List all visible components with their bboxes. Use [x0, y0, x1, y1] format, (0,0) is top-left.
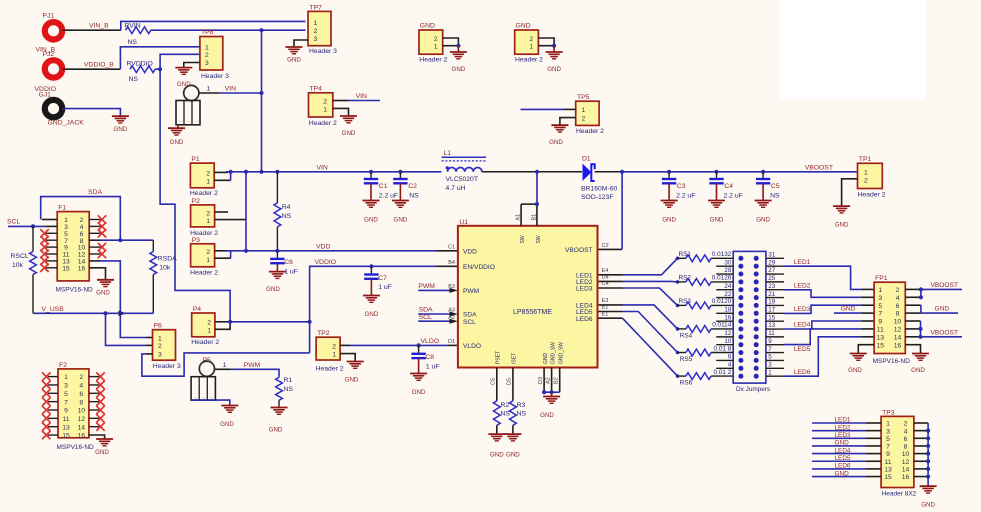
svg-text:GND: GND — [848, 367, 862, 374]
svg-text:16: 16 — [902, 474, 910, 481]
svg-text:28: 28 — [724, 267, 731, 274]
svg-text:1: 1 — [64, 374, 68, 381]
svg-text:GND: GND — [921, 502, 935, 509]
F1 unconnected pin X marks right — [89, 215, 106, 258]
wire SCL to F1 pin3 — [46, 225, 57, 227]
svg-text:PJ2: PJ2 — [43, 51, 55, 58]
connector FP1 — [873, 275, 911, 365]
svg-text:8: 8 — [79, 399, 83, 406]
test connector P5 — [191, 357, 215, 400]
svg-text:1 uF: 1 uF — [284, 268, 298, 275]
wire junction up to TP8 pin2 — [160, 54, 200, 69]
svg-text:0.0126: 0.0126 — [712, 275, 732, 282]
resistor R1 — [276, 377, 294, 407]
junction VIN at probe tap — [259, 91, 263, 95]
header TP3 — [881, 409, 917, 497]
ground for C4 — [708, 201, 725, 224]
junction V_USB at x120 — [118, 311, 122, 315]
svg-text:D5: D5 — [506, 378, 512, 385]
wire LED1 to FP1 pin1 — [784, 266, 874, 289]
wire P3 pin2 to VDD rail — [215, 250, 228, 252]
ground for C8 — [410, 374, 427, 397]
wire U1 GND pins — [544, 368, 560, 393]
svg-text:8: 8 — [896, 311, 900, 318]
resistor RS1 — [678, 251, 734, 262]
junction VIN on RVIN wire — [259, 28, 263, 32]
svg-text:15: 15 — [877, 342, 885, 349]
wire LED6 to TP3 pin 13 — [812, 468, 881, 470]
svg-text:11: 11 — [884, 459, 891, 466]
wire TP5 pin2 to ground — [560, 118, 576, 125]
svg-text:V_USB: V_USB — [42, 306, 65, 313]
svg-text:GND: GND — [662, 217, 676, 224]
svg-text:GND: GND — [841, 306, 856, 313]
svg-text:GND: GND — [412, 389, 426, 396]
svg-text:GND: GND — [177, 81, 191, 88]
ground for TP1 — [833, 206, 850, 228]
wire LED4 to FP1 pin9 — [784, 321, 874, 329]
svg-text:Header 2: Header 2 — [858, 192, 886, 199]
svg-text:R1: R1 — [284, 377, 293, 384]
svg-text:2.2 uF: 2.2 uF — [379, 192, 398, 199]
svg-text:5: 5 — [64, 391, 68, 398]
svg-text:LED6: LED6 — [835, 463, 851, 470]
svg-text:GND: GND — [342, 130, 356, 137]
wire VDDIO_B down to P4 node — [160, 69, 230, 322]
svg-text:LED3: LED3 — [835, 432, 851, 439]
wire VIN probe to VIN vertical — [199, 92, 219, 94]
junction GND-1 — [456, 44, 460, 48]
svg-text:2: 2 — [205, 52, 209, 59]
ground for GND-2 — [546, 46, 563, 73]
svg-text:Header 2: Header 2 — [190, 230, 218, 237]
svg-text:SCL: SCL — [463, 319, 476, 326]
jumper left pin numbers — [724, 259, 731, 368]
svg-text:0.01 8: 0.01 8 — [714, 345, 732, 352]
junction SCL at RSCL — [31, 224, 35, 228]
svg-text:14: 14 — [902, 467, 910, 474]
svg-text:14: 14 — [894, 334, 902, 341]
svg-text:3: 3 — [886, 428, 890, 435]
junction FP1 VBOOST top — [919, 287, 923, 299]
svg-text:SW: SW — [536, 235, 542, 243]
resistor RS3 — [678, 298, 734, 309]
svg-text:R3: R3 — [517, 402, 526, 409]
svg-text:NS: NS — [282, 213, 292, 220]
capacitor C1 — [364, 172, 398, 200]
svg-text:9: 9 — [768, 338, 772, 345]
svg-text:Header 2: Header 2 — [576, 128, 604, 135]
svg-text:1: 1 — [206, 218, 210, 225]
svg-text:LED4: LED4 — [835, 447, 851, 454]
wire SDA stub into U1 — [418, 312, 458, 317]
svg-text:12: 12 — [78, 416, 86, 423]
svg-text:LED3: LED3 — [576, 286, 593, 293]
svg-text:C2: C2 — [408, 183, 417, 190]
svg-text:VBOOST: VBOOST — [805, 164, 833, 171]
svg-text:GJ1: GJ1 — [39, 92, 52, 99]
capacitor C8 — [411, 345, 439, 373]
svg-text:13: 13 — [62, 424, 70, 431]
svg-text:1: 1 — [864, 170, 868, 177]
svg-text:10: 10 — [894, 319, 902, 326]
svg-text:RS5: RS5 — [680, 356, 693, 363]
svg-text:RVDDIO: RVDDIO — [127, 61, 153, 68]
junction U1 GND pins — [542, 390, 554, 394]
ground for F2 — [95, 439, 113, 456]
svg-text:GND: GND — [365, 311, 379, 318]
header TP5 — [576, 94, 604, 135]
junction V_USB at P6 feed — [103, 311, 107, 315]
svg-text:15: 15 — [768, 314, 775, 321]
resistor RVIN — [125, 22, 151, 46]
svg-text:LP8556TME: LP8556TME — [513, 309, 552, 316]
svg-text:Dx Jumpers: Dx Jumpers — [736, 386, 770, 393]
wire LED4 from U1 to RS4 — [599, 305, 678, 329]
ground for FP1 pin15 — [848, 354, 867, 375]
svg-text:LED5: LED5 — [835, 455, 851, 462]
svg-text:LED1: LED1 — [794, 259, 811, 266]
svg-text:6: 6 — [896, 303, 900, 310]
svg-text:Header 8X2: Header 8X2 — [882, 491, 917, 498]
svg-text:1: 1 — [582, 107, 586, 114]
svg-text:GND: GND — [756, 217, 770, 224]
svg-text:Header 2: Header 2 — [191, 339, 219, 346]
svg-text:2: 2 — [314, 28, 318, 35]
svg-text:3: 3 — [158, 352, 162, 359]
svg-text:PWM: PWM — [418, 283, 435, 290]
ground for GND-1 — [450, 46, 467, 73]
svg-text:P4: P4 — [193, 306, 202, 313]
svg-text:LED6: LED6 — [794, 369, 811, 376]
wire GND to TP3 pin 15 — [812, 476, 881, 478]
wire P4 pin1 jog — [215, 322, 230, 330]
svg-text:1: 1 — [529, 44, 533, 51]
svg-text:GND: GND — [220, 421, 234, 428]
wire LED6 to FP1 pin13 — [784, 337, 874, 376]
junction VDDIO_B — [158, 67, 162, 71]
svg-text:Header 2: Header 2 — [515, 57, 543, 64]
svg-text:24: 24 — [724, 283, 731, 290]
svg-text:10k: 10k — [159, 265, 171, 272]
wire TP4 pin1 to ground — [333, 108, 349, 115]
wire F1 pin14 down to V_USB and P6 pin1 — [89, 260, 100, 262]
wire FP1 pins 2+4 VBOOST — [905, 289, 962, 297]
svg-text:GND: GND — [96, 289, 110, 296]
svg-text:0.0132: 0.0132 — [712, 251, 732, 258]
ground for TP8 — [175, 68, 192, 88]
white overlay panel top-right — [780, 0, 925, 99]
resistor RSDA — [150, 240, 177, 313]
svg-text:10: 10 — [902, 451, 910, 458]
svg-text:SCL: SCL — [419, 314, 432, 321]
svg-text:1 uF: 1 uF — [378, 284, 392, 291]
ground for TP4 — [340, 116, 357, 137]
header TP2 — [316, 330, 344, 372]
svg-text:SDA: SDA — [463, 312, 477, 319]
svg-text:1: 1 — [206, 257, 210, 264]
svg-text:SCL: SCL — [7, 219, 20, 226]
header TP4 — [309, 86, 337, 127]
svg-text:TP3: TP3 — [882, 409, 895, 416]
svg-text:C6: C6 — [284, 259, 293, 266]
svg-text:NS: NS — [128, 39, 138, 46]
svg-text:16: 16 — [894, 342, 902, 349]
svg-text:GND: GND — [549, 139, 563, 146]
header P6 — [153, 323, 181, 370]
junction VLDO at C8 — [417, 343, 421, 347]
svg-text:4: 4 — [728, 361, 732, 368]
svg-text:RVIN: RVIN — [125, 22, 141, 29]
resistor RSCL — [11, 226, 37, 313]
svg-text:1 uF: 1 uF — [426, 364, 440, 371]
svg-text:GND_SW: GND_SW — [558, 342, 564, 364]
svg-text:3: 3 — [205, 60, 209, 67]
ground for C5 — [755, 201, 772, 224]
svg-text:VLDO: VLDO — [421, 338, 440, 345]
svg-text:11: 11 — [768, 330, 775, 337]
svg-text:7: 7 — [768, 346, 772, 353]
svg-text:1: 1 — [223, 362, 227, 369]
capacitor C7 — [364, 266, 392, 295]
svg-text:VBOOST: VBOOST — [565, 247, 592, 254]
junction VDDIO at C7 — [369, 264, 373, 268]
svg-text:FP1: FP1 — [875, 275, 888, 282]
svg-text:1: 1 — [158, 335, 162, 342]
ground for R3 — [504, 434, 521, 458]
header TP7 — [308, 4, 337, 55]
svg-text:14: 14 — [78, 424, 86, 431]
wire TP2 pin1 to ground — [340, 354, 355, 362]
capacitor C2 — [393, 172, 419, 200]
svg-text:TP4: TP4 — [310, 86, 323, 93]
resistor R2 on PSET — [493, 368, 510, 434]
svg-text:C5: C5 — [771, 183, 780, 190]
svg-text:1: 1 — [207, 85, 211, 92]
diode D1 — [581, 155, 617, 201]
svg-text:27: 27 — [768, 267, 775, 274]
svg-text:Header 2: Header 2 — [190, 269, 218, 276]
svg-text:2: 2 — [529, 36, 533, 43]
wire PJ1 to RVIN — [63, 29, 121, 31]
svg-text:3: 3 — [878, 295, 882, 302]
svg-text:P3: P3 — [192, 237, 201, 244]
capacitor C4 — [709, 172, 742, 200]
svg-text:NS: NS — [284, 386, 294, 393]
svg-text:ISET: ISET — [512, 353, 518, 364]
wire FP1 pins 6+8 GND — [905, 305, 958, 313]
header GND-1 (Header 2) — [419, 23, 447, 64]
svg-text:12: 12 — [894, 327, 902, 334]
svg-text:PJ1: PJ1 — [43, 13, 55, 20]
wire LED5 from U1 to RS5 — [599, 312, 678, 353]
banana jack GJ1 — [39, 92, 85, 127]
svg-text:9: 9 — [64, 408, 68, 415]
svg-text:NS: NS — [409, 192, 419, 199]
svg-text:L1: L1 — [444, 150, 452, 157]
svg-text:D1: D1 — [582, 155, 591, 162]
svg-text:2: 2 — [896, 287, 900, 294]
svg-text:LED5: LED5 — [794, 346, 811, 353]
svg-text:2.2 uF: 2.2 uF — [676, 192, 695, 199]
svg-text:RS1: RS1 — [679, 251, 692, 258]
F1 unconnected pin X marks left — [40, 229, 57, 272]
junction VDDIO vertical — [308, 320, 312, 324]
wire VDD rail — [226, 250, 437, 252]
svg-text:11: 11 — [62, 416, 69, 423]
svg-text:MSPV16-ND: MSPV16-ND — [873, 358, 911, 365]
wire TP5 pin1 — [521, 108, 565, 110]
svg-text:Header 3: Header 3 — [153, 363, 181, 370]
wire FP1 pin15 to ground — [858, 345, 874, 354]
wire LED1 to TP3 pin 1 — [812, 422, 881, 424]
svg-text:Header 2: Header 2 — [419, 57, 447, 64]
wire P1 pin1 jog to VIN rail — [214, 172, 230, 181]
svg-text:16: 16 — [724, 314, 731, 321]
ground for U1 — [540, 392, 560, 419]
svg-text:2: 2 — [207, 319, 211, 326]
svg-text:GND: GND — [95, 449, 109, 456]
svg-text:R4: R4 — [282, 204, 291, 211]
svg-text:MSPV16-ND: MSPV16-ND — [57, 444, 95, 451]
svg-text:5: 5 — [768, 354, 772, 361]
ground for P5 — [220, 406, 238, 428]
svg-text:1: 1 — [886, 421, 890, 428]
svg-text:7: 7 — [878, 311, 882, 318]
svg-text:LED4: LED4 — [794, 322, 811, 329]
svg-text:GND: GND — [543, 353, 549, 365]
svg-text:C2: C2 — [602, 243, 609, 249]
svg-text:9: 9 — [886, 451, 890, 458]
svg-text:1: 1 — [768, 369, 772, 376]
svg-text:6: 6 — [904, 436, 908, 443]
header P2 — [190, 198, 218, 237]
wire F1 pin8 to RSDA — [89, 239, 100, 241]
op-amp U1 LP8556TME — [458, 219, 598, 368]
wire V_USB to P6 pin2 — [106, 313, 147, 345]
svg-text:1: 1 — [332, 351, 336, 358]
F2 unconnected pin X marks — [42, 372, 105, 439]
wire SW to VIN rail — [536, 172, 538, 204]
svg-text:2: 2 — [206, 170, 210, 177]
junction dots at RS resistors — [676, 257, 680, 378]
resistor RS5 — [678, 345, 734, 363]
wire L1 to D1 — [482, 171, 582, 173]
svg-text:31: 31 — [768, 252, 775, 259]
svg-text:7: 7 — [886, 444, 890, 451]
svg-text:17: 17 — [768, 306, 775, 313]
svg-text:25: 25 — [768, 275, 775, 282]
svg-text:2: 2 — [79, 374, 83, 381]
svg-text:RS4: RS4 — [680, 333, 693, 340]
svg-text:LED6: LED6 — [576, 316, 593, 323]
svg-text:A2: A2 — [545, 377, 551, 384]
svg-text:GND: GND — [935, 306, 950, 313]
junction FP1 VBOOST bottom — [918, 327, 922, 339]
svg-text:VLDO: VLDO — [463, 343, 481, 350]
svg-text:1: 1 — [205, 45, 209, 52]
svg-text:2.2 uF: 2.2 uF — [724, 192, 743, 199]
junction SW bracket — [535, 202, 539, 206]
svg-text:29: 29 — [768, 259, 775, 266]
svg-text:12: 12 — [902, 459, 910, 466]
wire TP8 pin3 to ground — [184, 63, 200, 68]
junction VIN at x246 — [244, 170, 248, 253]
svg-text:4: 4 — [904, 428, 908, 435]
svg-text:BR160M-60: BR160M-60 — [581, 185, 617, 192]
wire VDDIO rail — [310, 266, 437, 353]
wire LED3 to FP1 pin5 — [784, 305, 874, 313]
wire SW pins bracket — [521, 204, 537, 226]
svg-text:6: 6 — [728, 354, 732, 361]
svg-text:PWM: PWM — [463, 288, 479, 295]
ground for TP3 — [920, 485, 937, 509]
svg-text:VDD: VDD — [463, 249, 477, 256]
svg-text:C5: C5 — [490, 378, 496, 385]
svg-text:LED1: LED1 — [835, 417, 851, 424]
svg-text:RS6: RS6 — [680, 380, 693, 387]
banana jack PJ1 — [36, 13, 63, 54]
wire RVDDIO to junction — [155, 68, 160, 70]
svg-text:2: 2 — [434, 36, 438, 43]
junction SW node — [535, 170, 539, 174]
svg-text:GND: GND — [835, 221, 849, 228]
junction dots TP3 ground bus — [926, 429, 930, 479]
svg-text:1: 1 — [323, 106, 327, 113]
resistor RS4 — [678, 322, 734, 340]
svg-text:11: 11 — [877, 327, 884, 334]
svg-text:GND: GND — [266, 286, 280, 293]
wire P5 shield to ground — [191, 400, 230, 405]
svg-text:F2: F2 — [59, 362, 67, 369]
wire VBOOST pin to rail — [599, 248, 623, 250]
svg-text:RSDA: RSDA — [158, 255, 177, 262]
svg-text:C3: C3 — [677, 183, 686, 190]
svg-text:13: 13 — [768, 322, 775, 329]
svg-text:2: 2 — [582, 115, 586, 122]
svg-text:C7: C7 — [378, 275, 387, 282]
wire VDDIO_B up to TP8 pin1 — [120, 47, 199, 69]
svg-text:NS: NS — [129, 76, 139, 83]
svg-text:0.0120: 0.0120 — [712, 298, 732, 305]
svg-text:4.7 uH: 4.7 uH — [446, 185, 466, 192]
svg-text:Header 2: Header 2 — [309, 120, 337, 127]
svg-text:GND: GND — [170, 139, 184, 146]
ground for FP1 pin16 — [911, 354, 929, 375]
svg-text:VIN: VIN — [356, 93, 367, 100]
svg-text:VDDIO: VDDIO — [315, 259, 337, 266]
svg-text:13: 13 — [884, 467, 892, 474]
svg-text:B4: B4 — [448, 260, 455, 266]
wire VIN_B up to TP7 pin1 rail — [121, 21, 306, 30]
wire TP1 pin2 to ground — [842, 179, 858, 206]
svg-text:C1: C1 — [379, 183, 388, 190]
connector F1 — [56, 205, 94, 294]
svg-text:Header 3: Header 3 — [309, 48, 337, 55]
svg-text:TP5: TP5 — [577, 94, 590, 101]
ground for C3 — [661, 201, 678, 224]
resistor RS6 — [678, 369, 734, 387]
wire LED5 to TP3 pin 11 — [812, 460, 881, 462]
svg-text:8: 8 — [904, 444, 908, 451]
svg-text:10k: 10k — [12, 262, 24, 269]
junction SDA at pin8 — [118, 238, 122, 242]
ground for VIN probe — [168, 125, 185, 146]
jumper block Dx Jumpers — [733, 251, 770, 392]
svg-text:E3: E3 — [602, 298, 609, 304]
svg-text:GND: GND — [394, 217, 408, 224]
header P1 — [190, 156, 218, 197]
